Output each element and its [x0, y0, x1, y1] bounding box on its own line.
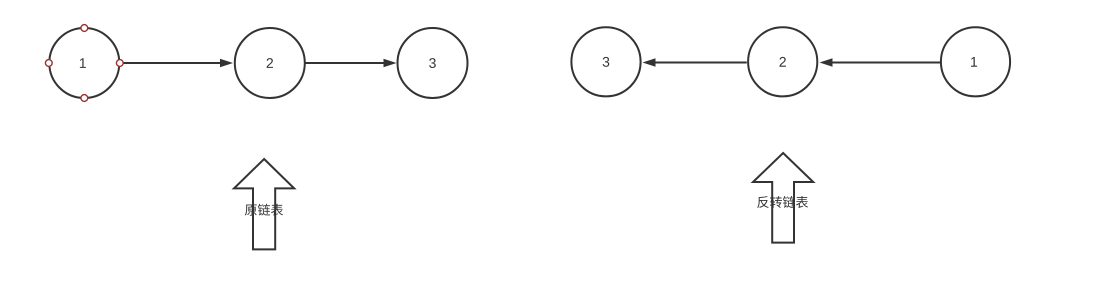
connection handle S on node 1 [81, 95, 88, 102]
wire arrow node2 to node3 (reversed list) [643, 58, 747, 66]
wire arrow node2 to node3 (original list) [306, 59, 397, 67]
label 原链表 (original list) [245, 204, 283, 216]
label 反转链表 (reversed list) [757, 196, 808, 208]
node 1 (original list) [49, 28, 119, 98]
node 1 (reversed list) [941, 27, 1010, 96]
wire arrow node1 to node2 (original list) [120, 59, 233, 67]
node 3 (original list) [398, 28, 468, 98]
connection handle E on node 1 [116, 60, 123, 67]
block up-arrow (reversed list pointer) [753, 153, 813, 243]
block up-arrow (original list pointer) [234, 159, 294, 249]
node 3 (reversed list) [571, 27, 640, 96]
connection handle N on node 1 [81, 25, 88, 32]
node 2 (reversed list) [748, 27, 817, 96]
connection handle W on node 1 [45, 60, 52, 67]
node 2 (original list) [235, 28, 305, 98]
wire arrow node1 to node2 (reversed list) [820, 58, 941, 66]
